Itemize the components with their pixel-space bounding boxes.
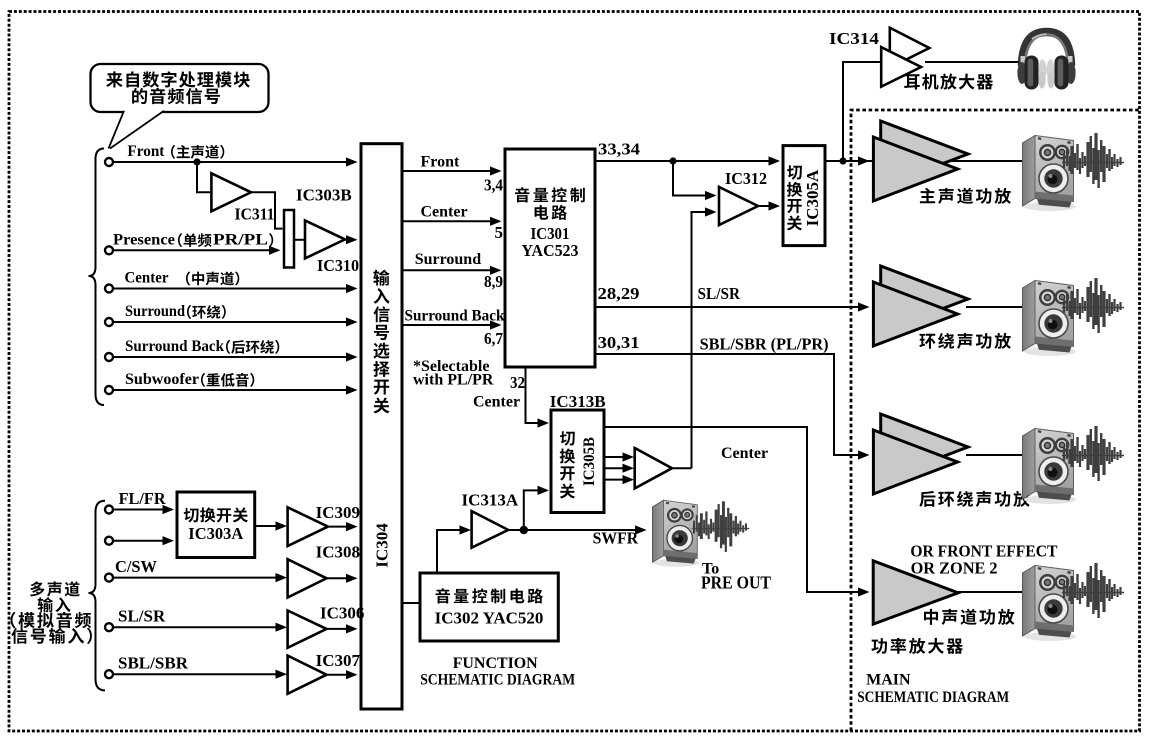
node Center input <box>105 285 113 293</box>
svg-text:Presence: Presence <box>113 231 175 248</box>
switch box IC305B <box>551 410 604 513</box>
svg-text:FUNCTION: FUNCTION <box>453 655 538 672</box>
op-amp IC306 <box>288 611 327 648</box>
label 环绕声功放 <box>919 334 935 349</box>
node Front input <box>105 158 113 166</box>
op-amp IC310 <box>305 220 345 258</box>
label 多声道输入 <box>30 581 44 596</box>
wire bar to IC310 <box>294 239 304 241</box>
label 输入信号选择开关 <box>373 270 389 286</box>
svg-text:PR/PL: PR/PL <box>213 231 268 248</box>
svg-text:MAIN: MAIN <box>866 671 911 688</box>
speaker center <box>1023 566 1077 642</box>
waveform center <box>1062 563 1124 618</box>
svg-text:OR ZONE 2: OR ZONE 2 <box>911 559 998 578</box>
svg-text:IC313A: IC313A <box>462 491 519 510</box>
wire IC307 out <box>327 674 347 676</box>
wire IC312 out <box>758 205 769 207</box>
switch box IC305A <box>783 146 825 246</box>
svg-text:IC312: IC312 <box>725 169 767 188</box>
wire 28,29 SL/SR <box>595 306 859 308</box>
svg-text:IC313B: IC313B <box>550 392 606 411</box>
op-amp IC314 <box>890 28 930 68</box>
speaker SWFR <box>652 500 699 566</box>
svg-text:with PL/PR: with PL/PR <box>413 372 494 389</box>
wire pin 32 <box>526 367 539 423</box>
wire IC313A in <box>437 530 460 573</box>
svg-text:28,29: 28,29 <box>598 284 640 303</box>
waveform main <box>1062 133 1124 188</box>
svg-text:IC303A: IC303A <box>188 524 243 543</box>
amp 后环绕声功放 <box>881 414 968 480</box>
svg-text:Center: Center <box>421 204 468 221</box>
amp 环绕声功放 <box>881 266 968 332</box>
svg-text:IC314: IC314 <box>829 29 880 48</box>
node SBL/SBR <box>105 670 113 678</box>
wire center amp feed <box>604 427 859 592</box>
svg-text:SL/SR: SL/SR <box>698 284 741 303</box>
wire IC311 out <box>251 192 283 228</box>
op-amp IC307 <box>288 656 327 694</box>
wire Surround 8,9 <box>402 269 491 271</box>
svg-text:SCHEMATIC DIAGRAM: SCHEMATIC DIAGRAM <box>420 671 575 688</box>
brace multichannel group <box>89 501 106 691</box>
speaker sback <box>1023 429 1077 505</box>
wire IC305B out3 <box>604 479 626 481</box>
wire IC304 to IC302 <box>402 602 420 604</box>
op-amp IC309 <box>288 507 328 546</box>
wire SWFR <box>508 529 643 531</box>
svg-text:30,31: 30,31 <box>598 333 640 352</box>
svg-text:C/SW: C/SW <box>115 557 157 576</box>
svg-text:IC304: IC304 <box>372 523 391 568</box>
svg-text:Subwoofer: Subwoofer <box>125 371 199 388</box>
node SL/SR <box>105 623 113 631</box>
svg-text:Front: Front <box>127 143 165 160</box>
node SWFR tap <box>520 526 528 534</box>
svg-text:IC305B: IC305B <box>581 437 598 486</box>
svg-text:IC302 YAC520: IC302 YAC520 <box>435 609 544 628</box>
svg-text:Surround: Surround <box>415 251 482 268</box>
amp 中声道功放 <box>873 561 958 624</box>
label 中声道功放 <box>924 609 938 625</box>
svg-text:3,4: 3,4 <box>484 176 503 195</box>
node main out <box>839 157 846 164</box>
wire IC306 out <box>327 628 347 630</box>
svg-text:IC309: IC309 <box>316 503 360 522</box>
svg-text:SBL/SBR (PL/PR): SBL/SBR (PL/PR) <box>700 335 829 354</box>
label 切换开关 A <box>787 165 802 179</box>
callout bubble 来自数字处理模块的音频信号 <box>91 64 269 112</box>
wire IC305A out <box>825 160 1022 162</box>
speaker main <box>1023 136 1077 212</box>
svg-text:SWFR: SWFR <box>593 528 639 547</box>
wire buffer out <box>672 467 692 469</box>
svg-text:6,7: 6,7 <box>484 329 503 348</box>
svg-text:Surround Back: Surround Back <box>125 338 224 355</box>
MAIN schematic dashed box <box>851 110 1139 731</box>
svg-text:PRE OUT: PRE OUT <box>701 573 771 593</box>
wire IC308 out <box>327 577 347 579</box>
wire IC303A out <box>255 525 276 527</box>
svg-text:Surround: Surround <box>125 303 185 320</box>
svg-text:IC308: IC308 <box>316 543 360 562</box>
label 切换开关 IC303A <box>184 508 199 522</box>
node FL/FR 2 <box>105 537 113 545</box>
node C/SW <box>105 574 113 582</box>
wire IC314 out <box>925 61 1019 63</box>
node Surround input <box>105 318 113 326</box>
label 耳机放大器 <box>904 74 920 89</box>
svg-text:SCHEMATIC DIAGRAM: SCHEMATIC DIAGRAM <box>857 689 1009 706</box>
svg-text:32: 32 <box>510 373 525 392</box>
waveform SWFR <box>692 501 749 552</box>
node Presence input <box>105 246 113 254</box>
svg-text:FL/FR: FL/FR <box>119 489 167 508</box>
svg-text:OR FRONT EFFECT: OR FRONT EFFECT <box>910 541 1058 560</box>
svg-text:IC305A: IC305A <box>803 169 822 226</box>
wire IC310 out <box>345 239 347 241</box>
op-amp IC311 <box>211 173 251 211</box>
node Subwoofer input <box>105 386 113 394</box>
wire surround amp <box>966 306 1022 308</box>
node FL/FR 1 <box>105 506 113 514</box>
wire Center 5 <box>402 220 491 222</box>
op-amp IC312 <box>719 187 758 225</box>
volume box IC301 <box>505 149 595 367</box>
svg-text:Surround Back: Surround Back <box>405 308 505 325</box>
wire center amp out <box>958 591 1022 593</box>
label 音量控制电路 IC302 <box>436 588 450 603</box>
svg-text:SL/SR: SL/SR <box>118 607 166 626</box>
switch box IC303A <box>177 492 255 558</box>
wire sback amp <box>966 454 1022 456</box>
svg-text:Center: Center <box>721 445 768 462</box>
svg-text:Center: Center <box>473 394 520 411</box>
svg-text:33,34: 33,34 <box>598 140 641 159</box>
label 音量控制电路 IC301 <box>515 187 529 202</box>
label 主声道功放 <box>920 188 935 203</box>
wire IC309 out <box>328 526 347 528</box>
volume box IC302 <box>420 573 558 641</box>
wire to IC314 <box>843 62 880 161</box>
svg-text:5: 5 <box>495 223 504 242</box>
label 功率放大器 <box>871 638 887 654</box>
wire IC305B out1 <box>604 456 626 458</box>
svg-text:8,9: 8,9 <box>484 272 503 291</box>
waveform sback <box>1062 426 1124 481</box>
wire 30,31 SBL/SBR <box>595 354 859 455</box>
wire IC312 in2 <box>692 212 709 468</box>
headphones icon <box>1017 32 1075 90</box>
svg-text:YAC523: YAC523 <box>522 241 579 260</box>
wire 33,34 <box>595 160 777 162</box>
wire Surround Back 6,7 <box>402 324 491 326</box>
op-amp IC308 <box>288 559 327 597</box>
wire IC305B out2 <box>604 467 626 469</box>
wire Front tap <box>193 158 200 165</box>
svg-text:IC303B: IC303B <box>296 186 352 205</box>
op-amp IC313A <box>472 511 509 548</box>
svg-text:SBL/SBR: SBL/SBR <box>118 654 189 673</box>
label 后环绕声功放 <box>919 491 935 507</box>
brace top input group <box>89 149 105 406</box>
svg-text:IC310: IC310 <box>317 256 359 275</box>
selector box IC304 <box>361 144 402 709</box>
speaker surround <box>1023 281 1077 357</box>
waveform surround <box>1062 278 1124 333</box>
svg-text:Front: Front <box>421 154 460 171</box>
node 33,34 tap <box>669 157 676 164</box>
wire Front 3,4 <box>402 170 491 172</box>
svg-text:IC306: IC306 <box>320 604 364 623</box>
wire to IC305B in2 <box>524 490 538 530</box>
label 切换开关 B <box>560 431 575 445</box>
op-amp center buffer <box>635 448 672 488</box>
switch bar IC303B <box>284 210 294 268</box>
wire IC312 in1 <box>673 161 708 196</box>
node Surround Back input <box>105 353 113 361</box>
svg-text:IC307: IC307 <box>316 651 361 670</box>
svg-text:IC311: IC311 <box>235 205 275 224</box>
svg-text:Center: Center <box>125 270 169 287</box>
amp 主声道功放 <box>881 121 968 187</box>
